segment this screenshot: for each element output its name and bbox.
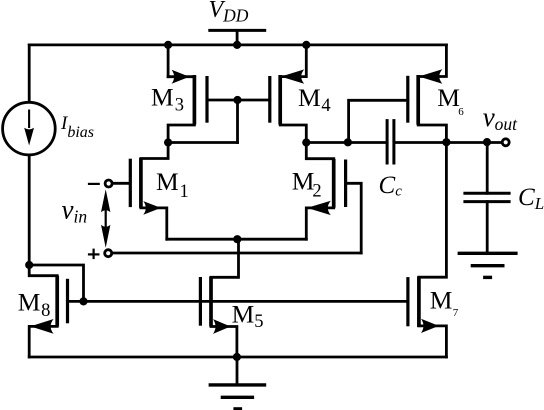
svg-text:vin: vin <box>62 195 88 227</box>
svg-text:M6: M6 <box>437 83 464 118</box>
svg-text:M7: M7 <box>430 285 459 319</box>
svg-text:M1: M1 <box>156 167 189 202</box>
svg-text:M5: M5 <box>232 300 264 332</box>
svg-text:M2: M2 <box>292 167 322 202</box>
svg-text:VDD: VDD <box>209 0 249 26</box>
svg-text:vout: vout <box>483 102 518 134</box>
svg-text:CL: CL <box>518 184 544 213</box>
svg-text:M8: M8 <box>18 288 51 321</box>
svg-text:M3: M3 <box>151 83 184 116</box>
svg-text:Cc: Cc <box>379 172 403 200</box>
svg-text:M4: M4 <box>298 83 331 116</box>
svg-text:Ibias: Ibias <box>60 113 94 141</box>
